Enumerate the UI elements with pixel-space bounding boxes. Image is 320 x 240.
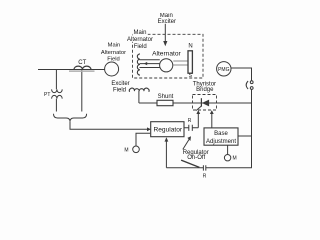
svg-text:Adjustment: Adjustment bbox=[206, 139, 236, 145]
svg-text:Bridge: Bridge bbox=[196, 87, 214, 93]
svg-text:CT: CT bbox=[78, 60, 86, 66]
svg-text:Base: Base bbox=[214, 131, 228, 137]
svg-text:On-Off: On-Off bbox=[187, 155, 205, 161]
svg-text:R: R bbox=[188, 118, 192, 124]
svg-text:R: R bbox=[203, 174, 207, 180]
svg-text:Alternator: Alternator bbox=[152, 51, 181, 58]
svg-text:M: M bbox=[233, 156, 237, 162]
svg-text:Shunt: Shunt bbox=[158, 94, 174, 100]
svg-text:Alternator: Alternator bbox=[101, 50, 126, 56]
svg-text:Field: Field bbox=[134, 44, 147, 50]
svg-text:M: M bbox=[124, 147, 128, 153]
svg-text:Alternator: Alternator bbox=[127, 37, 153, 43]
svg-text:Field: Field bbox=[113, 88, 126, 94]
svg-text:Regulator: Regulator bbox=[154, 126, 183, 133]
svg-text:PT: PT bbox=[44, 92, 50, 98]
svg-text:Field: Field bbox=[107, 56, 120, 62]
svg-text:Exciter: Exciter bbox=[111, 81, 129, 87]
svg-text:Main: Main bbox=[133, 30, 146, 36]
svg-text:PMG: PMG bbox=[218, 67, 230, 73]
svg-text:Main: Main bbox=[108, 43, 121, 49]
svg-text:N: N bbox=[188, 44, 192, 50]
svg-text:Exciter: Exciter bbox=[158, 19, 176, 25]
